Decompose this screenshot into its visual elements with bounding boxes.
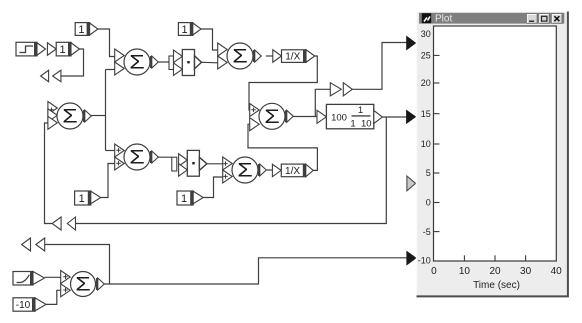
svg-text:-5: -5 <box>423 227 431 237</box>
svg-text:Σ: Σ <box>264 107 280 128</box>
summer S1 (upper chain) <box>115 49 159 75</box>
plot axes area <box>434 26 557 261</box>
svg-text:30: 30 <box>421 29 431 39</box>
const 1d block <box>75 191 101 205</box>
connector pair << (dead end, top-left) <box>41 70 61 82</box>
wire: const 1d to S2 bottom input <box>101 164 115 198</box>
wire: const 1e to S5 bottom input <box>203 177 224 198</box>
svg-text:25: 25 <box>421 51 431 61</box>
wire: transfer function output to plot input 2 <box>383 116 408 118</box>
wire: M1 output to S4 bottom input <box>202 61 219 64</box>
wire: S2 output to multiplier M2 split <box>156 156 172 158</box>
svg-text:-10: -10 <box>16 300 31 311</box>
svg-text:5: 5 <box>426 168 431 178</box>
summer S3 (3-input, left) <box>48 102 91 130</box>
plot window title bar <box>419 13 564 25</box>
wire: branch to connector pair lower-left <box>45 245 110 285</box>
svg-text:Plot: Plot <box>435 14 452 25</box>
svg-text:10: 10 <box>459 266 471 277</box>
wire: S7 output to transfer function <box>293 116 318 118</box>
summer S6 (bottom) <box>61 271 105 297</box>
plot window icon <box>422 13 431 23</box>
gain 1 block <box>56 42 79 56</box>
svg-text:1: 1 <box>78 24 84 36</box>
const 1b block <box>75 23 98 36</box>
wire: const 1a output down to left connector pair <box>61 49 84 76</box>
connector pair << (bottom-left, from S6) <box>22 238 45 251</box>
x axis labels <box>431 255 562 276</box>
ramp source block <box>13 272 45 286</box>
connector pair << (feedback to S3) <box>52 217 75 230</box>
svg-text:1 10: 1 10 <box>350 119 371 130</box>
wire: lower 1/X output up to S7 bottom input <box>248 124 317 170</box>
const 1c block <box>178 23 201 36</box>
reciprocal 1/X block (lower) <box>272 164 313 177</box>
svg-text:Σ: Σ <box>232 47 248 68</box>
minimize button <box>527 14 537 23</box>
wire: summer S3 output <box>91 115 106 117</box>
summer S5 (lower right) <box>223 157 267 183</box>
reciprocal 1/X block (upper) <box>273 50 315 63</box>
step source block <box>16 42 46 56</box>
wire: branch up to connector pair <box>315 89 330 116</box>
wire: S1 output to multiplier M1 split <box>158 61 169 63</box>
summer S7 (center) <box>250 103 294 130</box>
summer S4 (upper right) <box>218 43 262 69</box>
plot input arrow 3 (gray, unconnected) <box>407 176 416 191</box>
const -10 block <box>13 298 46 311</box>
summer S2 (lower chain) <box>115 144 159 170</box>
multiplier M1 (squarer, upper) <box>169 50 202 76</box>
svg-text:Time (sec): Time (sec) <box>473 280 520 291</box>
wire: connector pair to plot input 1 <box>352 43 407 90</box>
x axis title <box>473 280 520 291</box>
svg-text:20: 20 <box>421 78 431 88</box>
maximize button <box>539 14 549 23</box>
input connector of gain-1 block <box>47 43 56 56</box>
wire: S4 output to 1/X block <box>266 55 273 57</box>
svg-text:1: 1 <box>181 193 187 205</box>
wire: vertical bus from S3 output <box>105 70 107 151</box>
wire: feedback from transfer function output <box>76 117 387 224</box>
svg-text:Σ: Σ <box>129 53 145 74</box>
wire: const 1c to summer S4 top input <box>201 29 218 50</box>
const 1e block <box>177 191 203 205</box>
wire: upper 1/X output down to S7 top input <box>249 56 317 110</box>
svg-text:1/X: 1/X <box>285 166 300 177</box>
svg-text:Σ: Σ <box>75 275 91 296</box>
svg-text:30: 30 <box>520 266 532 277</box>
wire: const -10 to S6 bottom input <box>45 290 63 304</box>
y axis labels <box>418 29 440 265</box>
wire: M2 output to S5 top input <box>207 163 224 165</box>
wire: bus to S2 top input <box>106 150 116 152</box>
wire: S6 output to plot input 4 <box>102 258 407 284</box>
svg-text:40: 40 <box>551 266 563 277</box>
plot window frame <box>416 11 569 298</box>
multiplier M2 (squarer, lower) <box>172 150 207 176</box>
svg-text:10: 10 <box>421 139 431 149</box>
plot input arrow 2 (solid) <box>407 110 416 123</box>
svg-text:100: 100 <box>331 112 347 123</box>
transfer function block 100*1/(1 10) <box>317 104 383 129</box>
plot input arrow 1 (solid) <box>407 36 416 49</box>
svg-text:1/X: 1/X <box>285 52 300 63</box>
svg-text:Σ: Σ <box>237 161 253 182</box>
close button <box>552 14 562 23</box>
svg-text:1: 1 <box>79 193 85 205</box>
wire: S5 output to lower 1/X <box>266 169 273 171</box>
wire: const 1b to summer S1 top input <box>98 29 116 57</box>
svg-text:15: 15 <box>421 109 431 119</box>
svg-text:0: 0 <box>431 266 437 277</box>
svg-text:1: 1 <box>60 44 66 56</box>
svg-text:1: 1 <box>358 105 363 116</box>
svg-text:Σ: Σ <box>62 107 78 128</box>
wire: feedback to S3 bottom input <box>45 123 53 224</box>
wire: bus to S1 bottom input <box>106 69 116 71</box>
wire: ramp to S6 top input <box>45 276 63 278</box>
svg-text:Σ: Σ <box>129 148 145 169</box>
svg-text:-10: -10 <box>418 255 431 265</box>
svg-text:0: 0 <box>426 198 431 208</box>
connector pair >> (to plot input 1) <box>330 83 352 96</box>
plot input arrow 4 (solid) <box>407 251 416 264</box>
svg-text:20: 20 <box>489 266 501 277</box>
svg-text:1: 1 <box>182 24 188 36</box>
